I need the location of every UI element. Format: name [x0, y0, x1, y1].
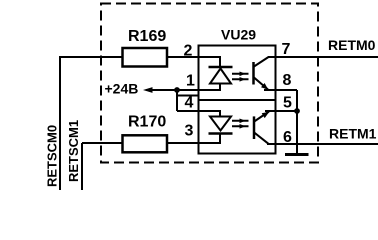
- +24B supply arrowhead: [143, 87, 153, 93]
- VU29 ch1 emitter arrowhead: [261, 83, 268, 90]
- wire pin 8 stub: [264, 89, 297, 91]
- svg-text:8: 8: [283, 72, 292, 89]
- wire net RETM0 (pin 7): [268, 56, 378, 58]
- svg-text:4: 4: [185, 95, 194, 112]
- svg-text:RETM0: RETM0: [328, 37, 376, 53]
- VU29 ch1 LED top lead (pin 2 side): [219, 57, 221, 67]
- svg-text:5: 5: [283, 95, 292, 112]
- wire RETSCM1 vertical: [81, 143, 83, 190]
- VU29 ch1 phototransistor collector (to pin 7): [254, 57, 269, 67]
- wire RETSCM0 to R169: [59, 56, 123, 58]
- wire +24B junction to pin 4 row: [176, 90, 178, 111]
- VU29 ch1 LED triangle: [210, 69, 231, 84]
- VU29 ch1 light arrow upper: [232, 73, 249, 75]
- VU29 ch2 LED triangle: [210, 117, 231, 131]
- node junction dot at pin 5: [294, 108, 300, 114]
- wire pin 4: [177, 110, 221, 112]
- wire net RETM1 (pin 6): [267, 143, 378, 145]
- VU29 ch2 emitter arrowhead: [262, 112, 270, 118]
- svg-text:6: 6: [283, 129, 292, 146]
- svg-text:2: 2: [184, 43, 193, 60]
- VU29 ch1 light arrow lower: [232, 78, 249, 80]
- svg-text:R169: R169: [128, 28, 166, 45]
- optocoupler VU29 body: [199, 46, 276, 154]
- ground symbol bar: [285, 153, 309, 156]
- wire pin 5 stub: [265, 110, 297, 112]
- wire vertical joining pins 8,5 to ground: [296, 90, 298, 155]
- VU29 ch2 phototransistor base bar: [253, 116, 256, 139]
- svg-text:RETSCM1: RETSCM1: [66, 120, 81, 182]
- dashed module border: [101, 4, 318, 163]
- VU29 ch2 light arrowhead upper: [240, 119, 246, 124]
- wire RETSCM1 to R170: [82, 142, 123, 144]
- VU29 ch2 LED top lead (pin 4 side): [219, 111, 221, 117]
- VU29 ch2 phototransistor emitter (to pin 5): [254, 112, 269, 122]
- svg-text:VU29: VU29: [221, 27, 256, 43]
- VU29 ch2 phototransistor collector (to pin 6): [254, 133, 268, 144]
- VU29 ch1 LED bottom lead (pin 1 side): [219, 84, 221, 91]
- VU29 ch1 light arrowhead upper: [240, 72, 246, 77]
- svg-text:7: 7: [282, 41, 291, 58]
- VU29 ch1 phototransistor base bar: [252, 62, 255, 85]
- svg-text:R170: R170: [128, 114, 166, 131]
- wire R169 to pin 2: [167, 56, 221, 58]
- VU29 channel separator line: [198, 99, 276, 101]
- svg-text:RETSCM0: RETSCM0: [45, 125, 60, 187]
- VU29 ch2 light arrowhead lower: [240, 124, 246, 129]
- wire RETSCM0 vertical: [59, 57, 61, 190]
- svg-text:1: 1: [186, 73, 195, 90]
- VU29 ch1 light arrowhead lower: [240, 77, 246, 82]
- wire R170 to pin 3: [167, 142, 221, 144]
- resistor R170: [123, 135, 168, 152]
- node junction dot on +24B rail: [174, 87, 180, 93]
- svg-text:+24B: +24B: [105, 81, 139, 97]
- svg-text:RETM1: RETM1: [329, 126, 377, 142]
- wire tick between pin 1 and pin 4 cells: [177, 95, 199, 97]
- VU29 ch2 light arrow lower: [232, 125, 249, 127]
- resistor R169: [123, 48, 168, 67]
- VU29 ch2 light arrow upper: [232, 120, 249, 122]
- VU29 ch2 LED cathode bar: [209, 132, 233, 135]
- wire net +24B rail to pin 1: [146, 89, 221, 91]
- VU29 ch1 LED cathode bar: [209, 66, 233, 69]
- VU29 ch1 phototransistor emitter (to pin 8): [254, 78, 268, 90]
- svg-text:3: 3: [185, 123, 194, 140]
- VU29 ch2 LED bottom lead (pin 3 side): [219, 134, 221, 144]
